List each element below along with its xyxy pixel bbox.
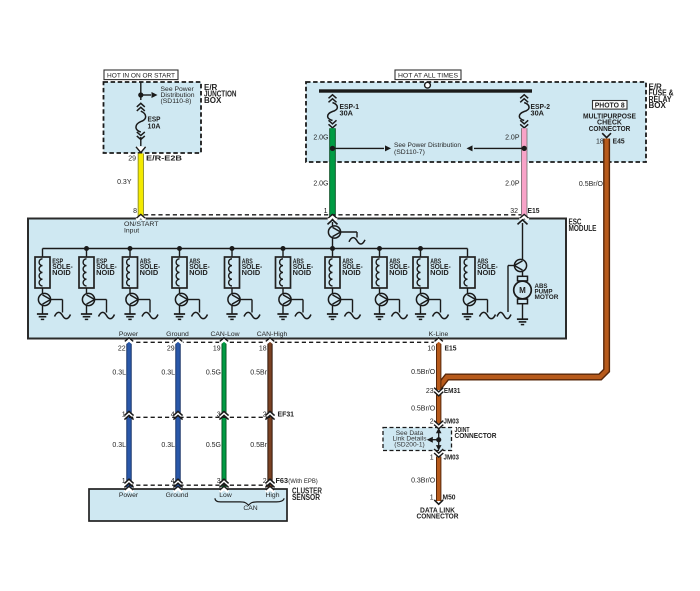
svg-text:NOID: NOID (189, 270, 208, 277)
svg-text:E/R-E2B: E/R-E2B (146, 153, 182, 162)
svg-text:NOID: NOID (342, 270, 361, 277)
svg-text:NOID: NOID (477, 270, 496, 277)
svg-text:0.3Y: 0.3Y (117, 179, 132, 186)
svg-text:NOID: NOID (430, 270, 449, 277)
svg-text:M: M (519, 286, 526, 295)
svg-text:0.5Br: 0.5Br (250, 370, 267, 377)
svg-text:2: 2 (263, 478, 267, 485)
svg-text:4: 4 (171, 478, 175, 485)
svg-text:19: 19 (213, 346, 221, 353)
svg-text:18: 18 (259, 346, 267, 353)
svg-text:EM31: EM31 (444, 386, 461, 395)
svg-text:0.3L: 0.3L (161, 370, 175, 377)
svg-text:K-Line: K-Line (429, 331, 449, 338)
svg-text:(SD110-8): (SD110-8) (161, 98, 192, 105)
svg-text:M50: M50 (443, 492, 456, 501)
svg-text:0.3Br/O: 0.3Br/O (411, 477, 436, 484)
svg-text:2.0P: 2.0P (505, 134, 520, 141)
svg-text:32: 32 (510, 208, 518, 215)
svg-text:2.0G: 2.0G (313, 181, 328, 188)
svg-text:Power: Power (119, 492, 139, 499)
svg-text:18: 18 (596, 139, 604, 146)
svg-text:2: 2 (430, 419, 434, 426)
svg-text:PHOTO 8: PHOTO 8 (595, 102, 625, 109)
svg-text:0.3L: 0.3L (112, 442, 126, 449)
svg-text:0.5G: 0.5G (206, 442, 221, 449)
svg-text:CONNECTOR: CONNECTOR (417, 512, 460, 521)
svg-text:10: 10 (427, 346, 435, 353)
svg-text:HOT IN ON OR START: HOT IN ON OR START (107, 72, 175, 79)
svg-text:E15: E15 (445, 344, 457, 353)
svg-text:0.5Br: 0.5Br (250, 442, 267, 449)
svg-text:E45: E45 (613, 137, 625, 146)
svg-text:1: 1 (122, 412, 126, 419)
svg-text:4: 4 (171, 412, 175, 419)
svg-text:30A: 30A (531, 111, 545, 118)
svg-text:CAN-Low: CAN-Low (210, 331, 239, 338)
svg-text:CAN: CAN (243, 505, 257, 512)
svg-text:SENSOR: SENSOR (292, 493, 320, 502)
svg-text:NOID: NOID (389, 270, 408, 277)
svg-text:Input: Input (124, 227, 139, 234)
svg-text:Ground: Ground (166, 492, 189, 499)
svg-text:10A: 10A (148, 124, 161, 131)
svg-text:0.5Br/O: 0.5Br/O (411, 406, 436, 413)
svg-text:F63: F63 (276, 476, 289, 485)
svg-text:NOID: NOID (96, 270, 115, 277)
svg-text:MOTOR: MOTOR (535, 294, 559, 301)
svg-text:1: 1 (122, 478, 126, 485)
svg-text:(With EPB): (With EPB) (288, 478, 318, 485)
svg-text:23: 23 (426, 388, 434, 395)
svg-text:Power: Power (119, 331, 139, 338)
svg-text:Ground: Ground (166, 331, 189, 338)
svg-text:NOID: NOID (242, 270, 261, 277)
svg-text:(SD200-1): (SD200-1) (394, 441, 424, 448)
svg-text:High: High (266, 492, 280, 499)
svg-text:0.5Br/O: 0.5Br/O (411, 369, 436, 376)
svg-text:BOX: BOX (649, 101, 667, 110)
svg-text:2.0P: 2.0P (505, 181, 520, 188)
svg-text:0.5Br/O: 0.5Br/O (579, 181, 604, 188)
svg-text:NOID: NOID (52, 270, 70, 277)
svg-text:CONNECTOR: CONNECTOR (589, 126, 631, 133)
svg-text:(SD110-7): (SD110-7) (394, 149, 425, 156)
svg-text:NOID: NOID (293, 270, 312, 277)
svg-text:CAN-High: CAN-High (257, 331, 288, 338)
svg-text:0.3L: 0.3L (112, 370, 126, 377)
svg-text:22: 22 (118, 346, 126, 353)
svg-text:1: 1 (324, 208, 328, 215)
svg-text:29: 29 (167, 346, 175, 353)
svg-text:0.5G: 0.5G (206, 370, 221, 377)
svg-text:Low: Low (219, 492, 232, 499)
svg-text:2.0G: 2.0G (313, 134, 328, 141)
svg-text:CONNECTOR: CONNECTOR (455, 431, 498, 440)
svg-text:HOT AT ALL TIMES: HOT AT ALL TIMES (398, 72, 458, 79)
svg-text:ESP: ESP (148, 117, 161, 124)
svg-text:NOID: NOID (140, 270, 159, 277)
svg-text:BOX: BOX (204, 96, 222, 105)
svg-text:29: 29 (128, 155, 136, 162)
svg-text:1: 1 (430, 454, 434, 461)
svg-text:0.3L: 0.3L (161, 442, 175, 449)
svg-text:JM03: JM03 (444, 452, 460, 461)
svg-text:8: 8 (133, 208, 137, 215)
svg-text:30A: 30A (340, 111, 354, 118)
svg-text:3: 3 (217, 478, 221, 485)
svg-text:EF31: EF31 (278, 410, 295, 419)
svg-text:1: 1 (430, 494, 434, 501)
svg-text:E15: E15 (528, 206, 540, 215)
svg-text:3: 3 (217, 412, 221, 419)
svg-text:2: 2 (263, 412, 267, 419)
svg-text:MODULE: MODULE (569, 224, 598, 233)
